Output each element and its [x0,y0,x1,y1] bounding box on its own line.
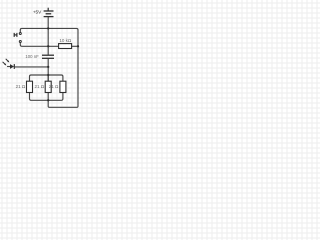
svg-text:21 Ω: 21 Ω [16,84,26,89]
svg-text:+5V: +5V [33,10,42,15]
svg-text:21 Ω: 21 Ω [34,84,44,89]
svg-text:10 kΩ: 10 kΩ [59,38,72,43]
svg-text:21 Ω: 21 Ω [49,84,59,89]
svg-text:100 nF: 100 nF [25,54,39,59]
